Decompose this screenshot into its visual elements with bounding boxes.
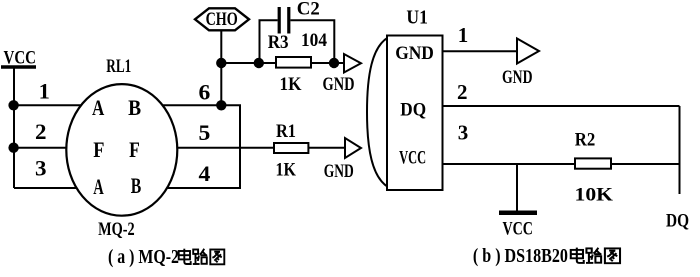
svg-text:DQ: DQ [400, 100, 426, 121]
svg-text:VCC: VCC [503, 218, 533, 239]
svg-text:VCC: VCC [399, 148, 426, 169]
svg-text:A: A [92, 95, 105, 120]
svg-text:1K: 1K [276, 159, 297, 180]
svg-text:( a ) MQ-2: ( a ) MQ-2 [108, 246, 179, 268]
svg-text:R1: R1 [276, 121, 296, 142]
svg-text:VCC: VCC [4, 48, 37, 69]
svg-text:GND: GND [502, 67, 533, 88]
svg-text:GND: GND [324, 161, 354, 182]
svg-text:RL1: RL1 [106, 56, 131, 77]
svg-text:C2: C2 [297, 0, 320, 20]
svg-text:1: 1 [458, 23, 469, 47]
svg-text:( b ) DS18B20: ( b ) DS18B20 [473, 245, 568, 267]
svg-text:3: 3 [458, 121, 469, 145]
svg-text:B: B [131, 173, 142, 198]
svg-text:F: F [129, 137, 140, 162]
svg-text:104: 104 [301, 30, 327, 51]
svg-text:3: 3 [35, 156, 47, 181]
svg-text:2: 2 [35, 119, 47, 144]
svg-text:U1: U1 [406, 6, 428, 28]
svg-text:B: B [128, 95, 141, 120]
svg-text:1: 1 [39, 78, 50, 103]
svg-text:GND: GND [323, 74, 355, 95]
svg-text:1K: 1K [280, 74, 302, 95]
svg-text:5: 5 [199, 120, 211, 145]
svg-text:R2: R2 [575, 130, 596, 151]
svg-text:2: 2 [457, 80, 468, 104]
svg-text:R3: R3 [268, 32, 289, 53]
svg-text:CHO: CHO [206, 9, 238, 30]
svg-text:GND: GND [395, 43, 434, 64]
svg-text:MQ-2: MQ-2 [98, 219, 135, 240]
svg-text:A: A [93, 174, 104, 199]
svg-text:DQ: DQ [666, 211, 689, 232]
svg-text:F: F [93, 137, 104, 162]
svg-text:4: 4 [199, 161, 211, 186]
svg-text:6: 6 [199, 80, 211, 105]
svg-text:10K: 10K [575, 184, 614, 205]
